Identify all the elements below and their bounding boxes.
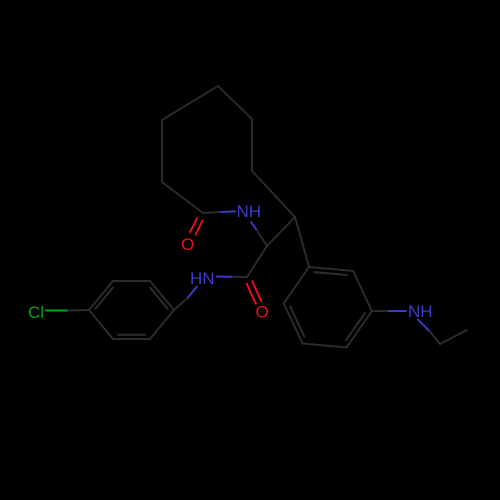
bond B-C bbox=[162, 86, 218, 120]
bond E-F bbox=[252, 171, 295, 217]
bond N-aryl (C half) bbox=[174, 299, 187, 311]
bond D-E bbox=[251, 119, 253, 171]
bond F-aryl bbox=[295, 217, 309, 267]
amide bond N-C1 (N half) bbox=[220, 210, 236, 213]
right aminophenyl ring bbox=[309, 267, 353, 271]
amide bond C2-N (C half) bbox=[232, 276, 248, 278]
bond Cl-aryl (C half) bbox=[68, 309, 89, 312]
bond CH2-CH3 bbox=[440, 330, 467, 344]
svg-text:O: O bbox=[181, 235, 194, 254]
bond C*-N (C half) bbox=[256, 229, 267, 246]
bond Cl-aryl (Cl half) bbox=[46, 310, 68, 312]
carbonyl C1=O1 bbox=[190, 218, 197, 232]
bond aryl-NH (C half) bbox=[372, 310, 389, 312]
carbonyl C2=O2 bbox=[247, 284, 256, 304]
bond C*-C2 bbox=[247, 246, 267, 277]
svg-text:O: O bbox=[256, 303, 269, 322]
bond C-D bbox=[218, 86, 252, 119]
left chlorophenyl ring bbox=[89, 281, 113, 310]
left ring aromatic inner lines bbox=[95, 288, 113, 309]
bond C1-A (lactam ring) bbox=[162, 182, 203, 213]
bond F-C* bbox=[267, 217, 295, 246]
bond aryl-NH (N half) bbox=[389, 310, 406, 312]
bond N-CH2 (C half) bbox=[430, 331, 441, 344]
bond N-CH2 (N half) bbox=[418, 320, 430, 332]
svg-text:NH: NH bbox=[408, 302, 433, 321]
amide bond N-C1 (C half) bbox=[203, 211, 220, 214]
amide bond C2-N (N half) bbox=[217, 276, 232, 278]
svg-text:NH: NH bbox=[237, 202, 262, 221]
svg-text:Cl: Cl bbox=[28, 303, 44, 322]
bond N-aryl (N half) bbox=[187, 287, 197, 299]
bond C*-N (N half) bbox=[251, 222, 256, 229]
right ring aromatic inner lines bbox=[314, 272, 347, 275]
bond A-B bbox=[161, 120, 163, 182]
svg-text:HN: HN bbox=[190, 269, 215, 288]
